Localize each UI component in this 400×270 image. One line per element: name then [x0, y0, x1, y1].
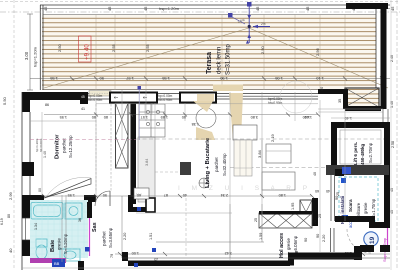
svg-text:41: 41 — [81, 107, 85, 111]
top-right thick wall corner — [346, 3, 388, 9]
svg-text:1.40: 1.40 — [390, 101, 394, 108]
svg-text:1.10: 1.10 — [315, 76, 324, 81]
mid dim line y196 — [44, 193, 312, 197]
column circle living — [196, 108, 216, 128]
magenta parapet bottom left — [30, 258, 66, 267]
svg-text:deck lemn: deck lemn — [217, 47, 223, 74]
skylight box top right — [345, 88, 381, 111]
faint circle right — [280, 81, 312, 113]
svg-text:gresie: gresie — [57, 237, 62, 250]
svg-text:S=4.20mp: S=4.20mp — [63, 233, 68, 254]
svg-text:1.89: 1.89 — [161, 115, 168, 119]
left margin dims — [0, 96, 13, 253]
drain marker purple — [228, 2, 270, 44]
scara wall below thin lines — [331, 228, 335, 252]
svg-text:36: 36 — [78, 218, 82, 222]
right exterior wall upper — [381, 3, 387, 109]
svg-text:S=3.65mp: S=3.65mp — [108, 227, 113, 248]
svg-text:60: 60 — [137, 193, 141, 197]
sas door leaf — [109, 191, 111, 206]
lift car inner outline — [340, 130, 381, 164]
sas label — [92, 222, 113, 248]
svg-text:3.00: 3.00 — [24, 51, 29, 60]
svg-text:1.95: 1.95 — [68, 193, 75, 197]
svg-text:60: 60 — [315, 189, 319, 193]
window W2 — [180, 93, 216, 103]
dashed axis x186 — [185, 198, 187, 258]
svg-text:6.19: 6.19 — [0, 218, 4, 225]
floor symbol circle living — [199, 178, 209, 188]
svg-text:2.34: 2.34 — [221, 193, 228, 197]
svg-text:1.57: 1.57 — [141, 115, 148, 119]
north wall left thick segment — [22, 92, 88, 112]
dash-dot offset line — [0, 11, 400, 13]
svg-text:2.19: 2.19 — [270, 133, 275, 142]
svg-text:3.42: 3.42 — [225, 251, 232, 255]
interior verticals hol — [122, 140, 262, 258]
svg-text:hb=0.90m: hb=0.90m — [158, 98, 173, 102]
right margin small dims — [390, 55, 395, 214]
mullion stub lines below window1 — [115, 103, 152, 114]
window W1 — [110, 93, 157, 103]
svg-text:S=12.25mp: S=12.25mp — [68, 135, 73, 158]
svg-text:45: 45 — [107, 6, 112, 11]
property dashed line top — [0, 1, 400, 3]
svg-text:80: 80 — [92, 115, 96, 119]
dashed segment mid living — [155, 171, 180, 173]
bottom walls — [78, 245, 390, 270]
long construction grid verticals — [42, 90, 345, 260]
hol label — [279, 233, 298, 258]
kitchen counters — [139, 104, 165, 137]
blue switch square scara lower — [343, 215, 348, 220]
svg-text:1.95: 1.95 — [291, 203, 295, 210]
living dashed line — [136, 138, 388, 140]
svg-text:Hol acces: Hol acces — [279, 233, 285, 258]
scara labels — [340, 196, 376, 228]
svg-text:80: 80 — [7, 214, 11, 218]
svg-text:1.55: 1.55 — [161, 76, 170, 81]
svg-text:2.99: 2.99 — [8, 191, 13, 200]
NE thick wall step — [318, 89, 348, 109]
svg-text:1.57: 1.57 — [125, 76, 134, 81]
dim 45 labels top — [43, 6, 395, 11]
svg-text:40: 40 — [326, 189, 330, 193]
svg-text:25: 25 — [254, 218, 258, 222]
hatched column left of living — [116, 103, 129, 168]
svg-text:45: 45 — [81, 95, 85, 99]
terrace deck floor — [42, 15, 376, 90]
living label — [205, 137, 227, 188]
svg-text:2.58: 2.58 — [391, 141, 395, 148]
svg-text:S=31.50mp: S=31.50mp — [226, 43, 232, 75]
insulated wall band hol — [254, 211, 317, 228]
sas door arc — [95, 191, 110, 206]
svg-text:1.55: 1.55 — [49, 76, 58, 81]
svg-text:2.50: 2.50 — [57, 43, 62, 52]
sofa rects — [262, 144, 295, 190]
svg-text:hb=0.00m: hb=0.00m — [39, 138, 43, 152]
right dashed margin — [396, 0, 398, 270]
svg-text:S=2.70mp: S=2.70mp — [368, 142, 373, 163]
svg-text:45: 45 — [390, 188, 394, 192]
svg-text:parchet: parchet — [214, 157, 219, 172]
long construction grid horizontals — [22, 104, 390, 268]
parapet lines between windows — [88, 94, 318, 100]
svg-text:40: 40 — [8, 248, 13, 253]
svg-text:gresie: gresie — [286, 237, 291, 250]
svg-text:1.34: 1.34 — [34, 223, 38, 230]
svg-text:Dormitor: Dormitor — [55, 134, 61, 159]
svg-text:450-480kg: 450-480kg — [360, 143, 365, 165]
dim ticks on window line — [42, 113, 320, 199]
svg-text:3.84: 3.84 — [145, 159, 149, 166]
svg-text:40: 40 — [313, 172, 317, 176]
svg-text:hb=0.90m: hb=0.90m — [88, 98, 103, 102]
svg-text:Scara: Scara — [348, 199, 353, 212]
purple tick at window W1 — [138, 86, 142, 140]
svg-text:45: 45 — [255, 6, 260, 11]
svg-text:2.55: 2.55 — [111, 43, 116, 52]
terrace outer edge lines — [40, 5, 390, 90]
dashed axis line dormitor — [30, 139, 136, 141]
svg-text:3.84: 3.84 — [257, 149, 262, 158]
svg-text:1.05: 1.05 — [274, 76, 283, 81]
svg-text:19: 19 — [369, 236, 376, 244]
svg-text:BB: BB — [54, 261, 60, 266]
svg-text:45: 45 — [305, 6, 310, 11]
door arc bottom right — [347, 229, 371, 253]
duct U-wall near sas — [128, 188, 155, 212]
scara dashed cyan box — [339, 177, 378, 221]
dormitor door leaf — [44, 177, 91, 198]
dormitor label — [55, 134, 74, 159]
svg-text:80: 80 — [38, 188, 42, 192]
living dim line — [44, 115, 318, 127]
hp/hb annotations — [88, 94, 283, 105]
svg-text:80: 80 — [104, 115, 108, 119]
baie label — [50, 233, 68, 254]
svg-text:Baie: Baie — [50, 239, 56, 252]
kitchen tan shapes (stair flight) — [193, 85, 243, 141]
left dim line 3.00 — [24, 14, 33, 90]
bottom dim line — [115, 251, 390, 256]
svg-text:1.90: 1.90 — [219, 76, 228, 81]
wall next to nisa — [312, 198, 318, 226]
baie top wall with door opening — [30, 195, 96, 202]
svg-text:90: 90 — [304, 238, 308, 242]
svg-text:1.51: 1.51 — [149, 233, 153, 240]
right wall window gap lines — [383, 109, 388, 122]
gray wardrobe strip — [138, 137, 155, 202]
baie floor — [30, 200, 88, 258]
svg-text:25: 25 — [336, 192, 340, 196]
dim 1.40 and 35 right of skylight — [303, 87, 352, 196]
baie fixtures — [31, 203, 82, 262]
terasa room label — [206, 43, 232, 75]
svg-text:1.95: 1.95 — [60, 115, 67, 119]
scara bottom walls — [335, 216, 384, 228]
baie/sas wall — [85, 202, 92, 256]
svg-text:1.00: 1.00 — [132, 251, 139, 255]
svg-text:40: 40 — [183, 193, 187, 197]
svg-text:2.40: 2.40 — [390, 55, 394, 62]
svg-text:parchet: parchet — [102, 231, 107, 246]
svg-text:gresie: gresie — [363, 202, 368, 214]
svg-text:45: 45 — [390, 6, 395, 11]
svg-text:2.56: 2.56 — [315, 47, 320, 56]
svg-text:2.55: 2.55 — [145, 43, 150, 52]
svg-text:1.40: 1.40 — [43, 151, 47, 158]
small rotated annotation left mid — [35, 138, 47, 192]
svg-text:90: 90 — [316, 234, 320, 238]
svg-text:35: 35 — [338, 99, 342, 103]
svg-text:1.80: 1.80 — [279, 193, 286, 197]
left exterior wall of rooms — [22, 92, 34, 270]
deck rotated dims — [57, 43, 320, 56]
dark stove block — [180, 162, 191, 175]
interior wall dormitor/living — [131, 103, 137, 204]
rotated dims bottom — [110, 196, 339, 258]
right margin line — [390, 0, 392, 270]
svg-text:45: 45 — [390, 210, 394, 214]
svg-text:87: 87 — [164, 193, 168, 197]
svg-text:80: 80 — [182, 115, 186, 119]
svg-text:3.80: 3.80 — [251, 115, 258, 119]
svg-text:2.50: 2.50 — [260, 45, 265, 54]
svg-text:hsp=1.20m: hsp=1.20m — [33, 46, 38, 67]
left gray verticals — [62, 195, 66, 262]
svg-text:S=32.40mp: S=32.40mp — [222, 153, 227, 176]
scara left wall thin — [331, 175, 335, 221]
svg-text:86: 86 — [45, 103, 49, 107]
nisa hatched box — [300, 200, 312, 224]
red level +9.40 — [79, 36, 92, 62]
dashed axis line living east — [230, 167, 331, 169]
glazed parapet band left of W1 — [89, 91, 111, 97]
svg-text:2.20: 2.20 — [322, 235, 326, 242]
svg-text:90: 90 — [99, 76, 104, 81]
svg-text:Terasa: Terasa — [206, 52, 213, 74]
svg-text:hsp=1.20m: hsp=1.20m — [159, 6, 180, 11]
svg-text:2%: 2% — [261, 22, 266, 26]
dormitor closet dashed — [96, 104, 111, 192]
svg-text:S=1.70mp: S=1.70mp — [371, 198, 376, 218]
svg-text:25: 25 — [313, 220, 317, 224]
svg-text:79: 79 — [110, 254, 114, 258]
svg-text:25: 25 — [154, 258, 158, 262]
svg-text:2.20: 2.20 — [123, 233, 127, 240]
deck bottom dim line — [30, 76, 390, 81]
slope diagonals to drain — [44, 28, 388, 88]
svg-text:90: 90 — [103, 193, 107, 197]
lift shaft walls — [326, 122, 390, 246]
property dashed line left — [13, 0, 15, 270]
dim line y242 hol — [156, 241, 264, 243]
deck joint verticals — [96, 15, 345, 90]
blue squares scara — [341, 178, 346, 183]
lift label — [353, 142, 373, 165]
svg-text:45: 45 — [43, 6, 48, 11]
svg-text:5.50: 5.50 — [2, 96, 7, 105]
svg-text:40: 40 — [320, 87, 324, 91]
svg-text:I M Z U I S A R P: I M Z U I S A R P — [178, 185, 312, 192]
svg-text:Sas: Sas — [92, 222, 98, 232]
svg-text:1.59: 1.59 — [259, 233, 263, 240]
circled 19 — [364, 232, 378, 246]
white box over stair band — [233, 125, 257, 140]
svg-text:Living + Bucatarie: Living + Bucatarie — [205, 137, 211, 188]
svg-text:1.40: 1.40 — [303, 115, 310, 119]
cabinet tan living — [234, 140, 252, 176]
svg-text:Lift 6 pers.: Lift 6 pers. — [353, 142, 358, 165]
svg-text:+9.40: +9.40 — [84, 44, 91, 60]
svg-text:45: 45 — [143, 6, 148, 11]
svg-text:parchet: parchet — [62, 138, 67, 153]
